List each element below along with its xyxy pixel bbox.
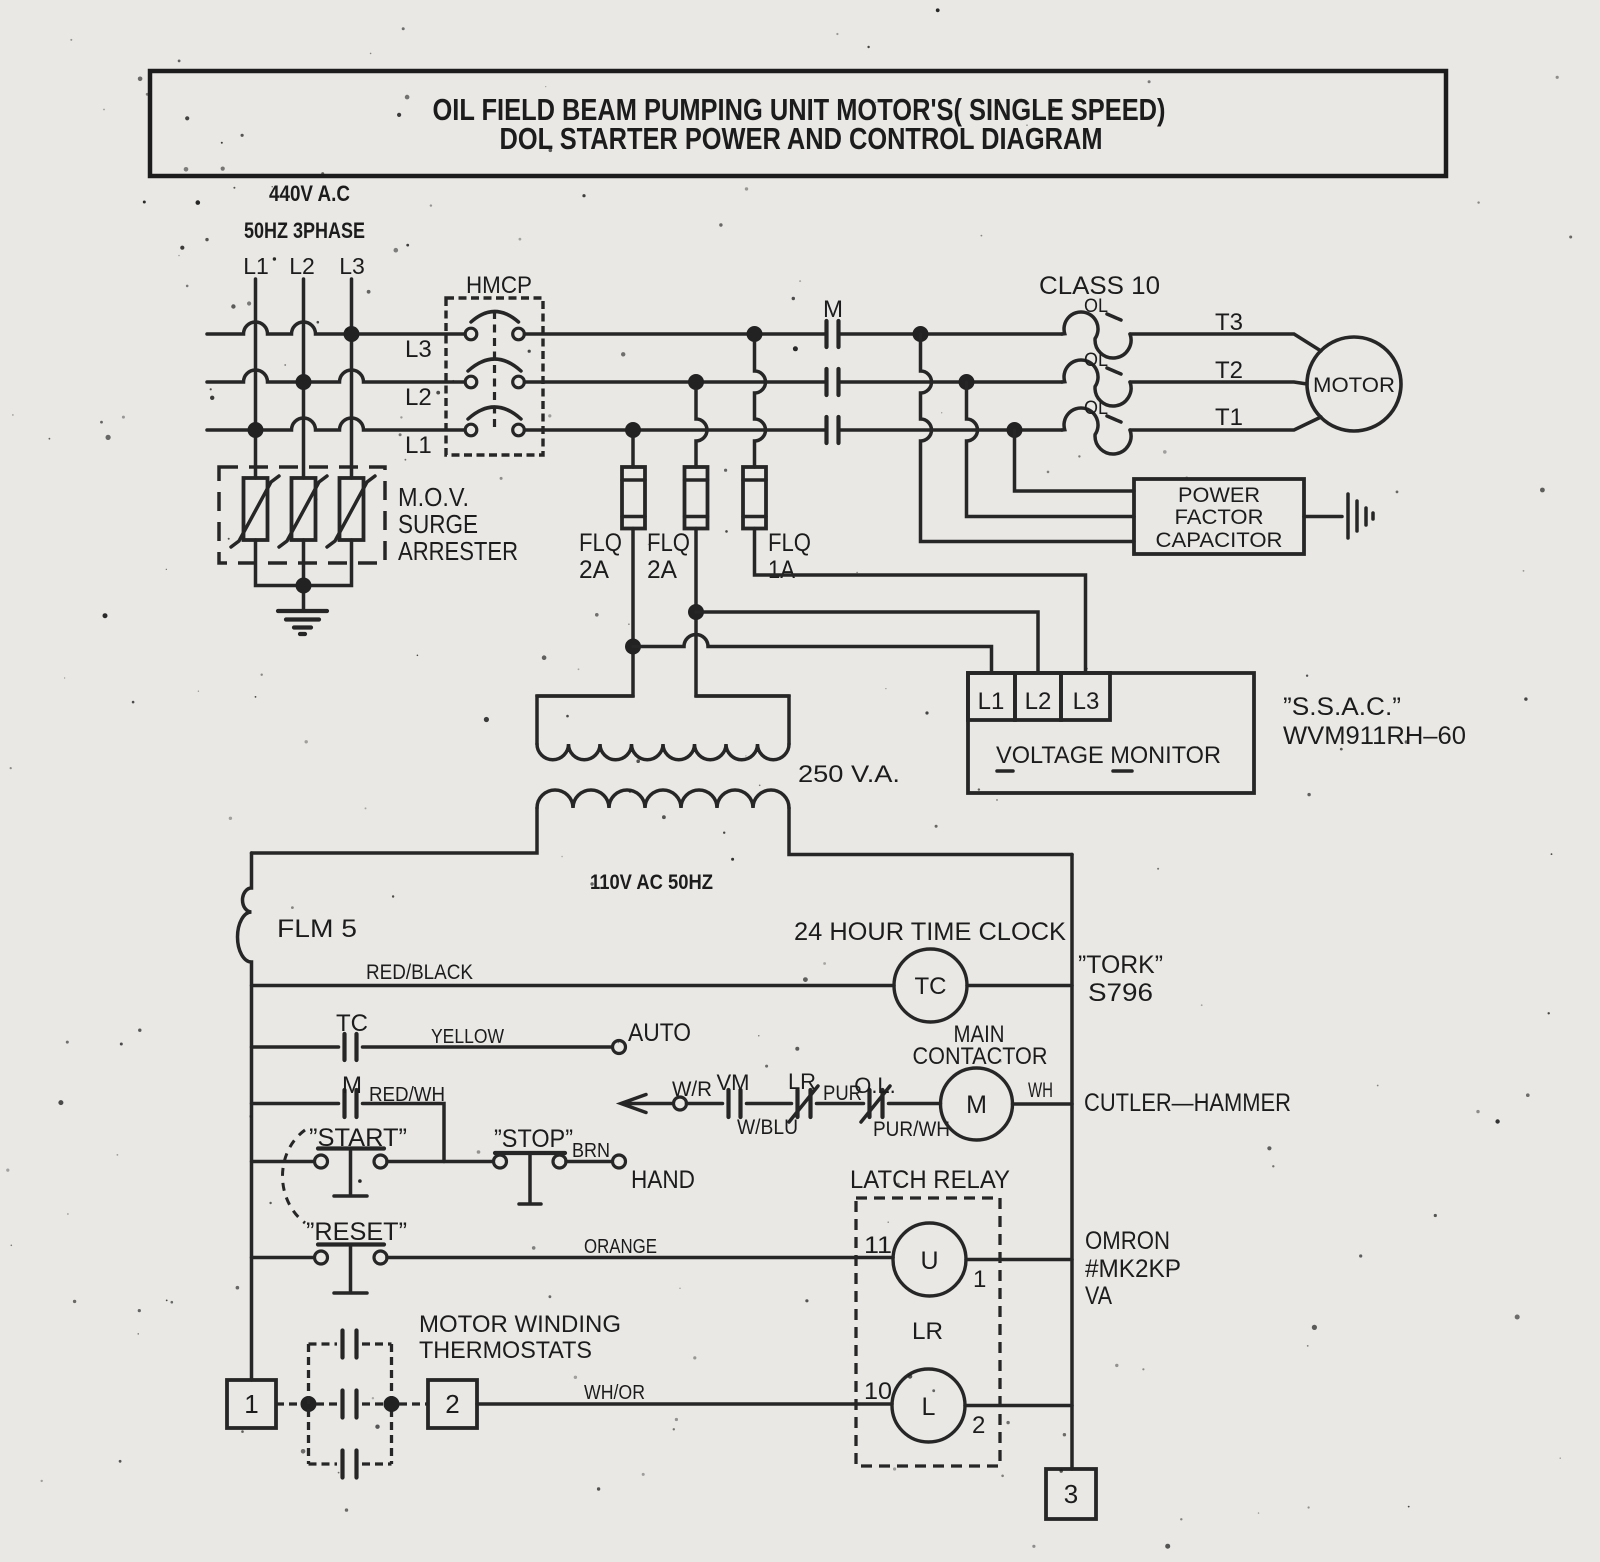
wire tap to VM L2 [696,612,1038,673]
svg-text:YELLOW: YELLOW [431,1026,504,1048]
svg-text:VA: VA [1085,1282,1112,1310]
title border box [150,71,1446,176]
wire TC contact to AUTO terminal [363,1045,613,1049]
wire PF tap from L2 (hops L1 bus) [967,382,1135,517]
wire MOV bottoms to common bus [256,540,352,609]
svg-text:POWER: POWER [1178,484,1260,507]
svg-text:CAPACITOR: CAPACITOR [1156,529,1283,552]
svg-text:11: 11 [864,1232,892,1259]
transformer T1 secondary winding [537,790,789,808]
wire bus L1 bottom left (hops over L2,L3 drops) [207,418,465,430]
VM terminal box L1 [968,673,1015,720]
svg-text:HAND: HAND [631,1166,695,1194]
terminal box 1 [227,1380,276,1428]
svg-text:L1: L1 [243,253,269,279]
breaker pole L1 (circles and arc) [465,424,477,436]
overload heater OL on T1 [1062,408,1131,454]
svg-text:THERMOSTATS: THERMOSTATS [419,1337,592,1364]
svg-text:10: 10 [864,1378,892,1405]
rung 1: wire to TC clock [252,984,895,988]
svg-text:L1: L1 [978,688,1005,715]
svg-text:M: M [823,296,843,323]
node dot thermostat left [301,1396,317,1412]
wire box2 to L coil [477,1402,892,1406]
node dot L1 / PF cap tap [1007,422,1023,438]
svg-text:W/R: W/R [672,1078,712,1101]
svg-text:CUTLER—HAMMER: CUTLER—HAMMER [1084,1089,1291,1117]
terminal AUTO [613,1041,626,1054]
svg-text:L2: L2 [405,384,432,411]
breaker pole L3 (circles and arc) [465,328,477,340]
wire OL to M coil [889,1102,941,1106]
svg-text:OL: OL [1084,398,1108,419]
contact O.L. (NC with slash) [870,1090,883,1117]
terminal W/R pivot [674,1097,687,1110]
wire L2 from M to OL [840,380,1062,384]
svg-text:LATCH RELAY: LATCH RELAY [850,1166,1010,1194]
wire M contact down to start rung [363,1104,445,1162]
wire L1 phase drop [254,279,258,478]
latch relay dashed box [856,1198,1000,1466]
wire left rail with FLM fuse bumps [238,853,252,1380]
svg-text:”STOP”: ”STOP” [494,1125,573,1153]
motor M1 circle [1307,337,1401,431]
node dot L2/FLQ2A-2 tap [688,374,704,390]
svg-text:50HZ 3PHASE: 50HZ 3PHASE [244,218,365,243]
fuse FLQ2A-1 body [622,467,645,529]
svg-text:1: 1 [973,1266,986,1293]
wire START to STOP [387,1160,494,1164]
terminal box 2 [428,1380,477,1428]
svg-text:L3: L3 [1073,688,1100,715]
svg-text:PUR/WH: PUR/WH [873,1118,950,1141]
svg-text:S796: S796 [1088,979,1153,1007]
terminal HAND [613,1155,626,1168]
svg-text:1: 1 [244,1389,258,1419]
wire bus L3 after HMCP to OL [525,332,826,336]
wire FLQ2A-1 to transformer primary left [537,529,633,745]
wire bus L3 top left (hops over L1,L2 drops) [207,322,465,334]
svg-text:2A: 2A [579,556,609,584]
svg-text:L: L [922,1393,936,1421]
svg-text:250 V.A.: 250 V.A. [798,761,900,788]
svg-text:MOTOR: MOTOR [1313,374,1395,397]
svg-text:RED/BLACK: RED/BLACK [366,961,473,984]
svg-text:440V A.C: 440V A.C [269,181,350,206]
VM terminal box L3 [1061,673,1110,720]
wire secondary right lead to right rail [789,808,1072,855]
coil U (unlatch) [893,1223,966,1296]
svg-text:”START”: ”START” [309,1124,407,1152]
svg-text:”RESET”: ”RESET” [306,1218,407,1246]
wire FLQ1A to voltage monitor L3 [755,529,1086,674]
coil M main contactor [941,1068,1013,1140]
node junction dot L1 bus / L1 drop [248,422,264,438]
svg-text:CONTACTOR: CONTACTOR [913,1043,1048,1070]
svg-text:WVM911RH–60: WVM911RH–60 [1283,722,1466,750]
wire PF tap from L1 [1015,430,1135,491]
contact TC (NO) [345,1034,357,1060]
svg-text:”TORK”: ”TORK” [1078,951,1163,979]
svg-text:TC: TC [915,973,947,1000]
dashed wire box1 to thermostats [276,1402,300,1405]
svg-text:U: U [920,1247,938,1275]
wire TC to right rail [967,984,1072,988]
svg-text:TC: TC [336,1010,368,1037]
wire LR to OL contact [817,1102,864,1106]
node dot L3 / PF cap tap [913,326,929,342]
rung 4: wire rail to START [252,1160,315,1164]
contactor M contact L3 [827,321,839,347]
thermostat contact middle [343,1391,357,1418]
pushbutton RESET (NO) [315,1251,328,1264]
power section [207,253,1466,894]
VM terminal box L2 [1015,673,1061,720]
node junction dot L3 bus / L3 drop [344,326,360,342]
node MOV common dot [296,578,312,594]
control section [227,853,1291,1519]
node dot tap to VM L2 [688,604,704,620]
wire L1 from M to OL [840,428,1062,432]
wire tap to VM L1 (hops FLQ2A-2 drop) [633,635,992,674]
svg-text:24 HOUR TIME CLOCK: 24 HOUR TIME CLOCK [794,918,1066,946]
overload heater OL on T2 [1062,360,1131,406]
svg-text:FACTOR: FACTOR [1175,506,1264,529]
thermostat contact top [343,1331,357,1358]
fuse FLQ2A-2 drop from L2 bus (hops L1 bus) [696,390,707,467]
fuse FLQ1A body [743,467,766,529]
node junction dot L2 bus / L2 drop [296,374,312,390]
thermostat parallel dashed frame [309,1344,392,1464]
node dot thermostat right [384,1396,400,1412]
selector arrow [621,1095,674,1113]
wire bus L1 after HMCP to OL [525,428,826,432]
svg-text:”S.S.A.C.”: ”S.S.A.C.” [1283,693,1401,721]
svg-text:BRN: BRN [572,1140,610,1162]
fuse FLQ1A drop from L3 bus (hops L2,L1 buses) [755,342,766,467]
terminal box 3 [1046,1469,1096,1519]
svg-text:FLQ: FLQ [579,529,622,557]
svg-text:M.O.V.: M.O.V. [398,482,469,512]
wire PF tap from L3 (hops L2,L1 buses) [921,334,1135,542]
node dot L1/FLQ2A-1 tap [625,422,641,438]
breaker HMCP dashed enclosure [446,298,543,455]
contact M (seal-in NO) [345,1090,357,1117]
pushbutton START (NO) [315,1155,328,1168]
contact VM (NO) [729,1090,741,1117]
contactor M contact L2 [827,369,839,395]
wire bus L2 middle left (hops over L1,L3 drops) [207,370,465,382]
contactor M contact L1 [827,417,839,443]
wire VM to LR contact [747,1102,792,1106]
wire bus L2 after HMCP to OL [525,380,826,384]
svg-text:T1: T1 [1215,404,1243,431]
svg-text:OMRON: OMRON [1085,1227,1170,1255]
wire PF cap to earth [1304,515,1342,519]
wire STOP to HAND terminal [566,1160,612,1164]
overload heater OL on T3 [1062,312,1131,358]
wire secondary left lead to left rail [252,808,538,853]
wire M coil to right rail [1013,1102,1073,1106]
wire to VM contact [687,1102,723,1106]
ground symbol (earth) [278,609,327,613]
svg-text:O.L.: O.L. [854,1073,896,1098]
varistor RV1 [244,478,268,540]
svg-text:FLM 5: FLM 5 [277,915,357,943]
svg-text:OL: OL [1084,350,1108,371]
svg-text:SURGE: SURGE [398,509,478,539]
rung 3: wire from rail to M contact [252,1102,339,1106]
wire T1 to motor [1130,417,1321,430]
fuse FLQ2A-2 body [685,467,708,529]
wire T2 to motor [1130,382,1307,384]
dashed mechanical link START-RESET [283,1130,306,1223]
thermostat contact bottom [343,1451,357,1478]
svg-text:L2: L2 [1025,688,1052,715]
rung 5: wire rail to RESET [252,1256,315,1260]
contact LR (NC with slash) [798,1090,811,1117]
svg-text:WH/OR: WH/OR [584,1382,645,1404]
svg-text:L1: L1 [405,432,432,459]
MOV surge arrester dashed box [219,467,385,563]
power factor capacitor box [1134,479,1304,554]
breaker HMCP mechanical tie dashed line [493,311,496,430]
node dot tap to VM L1 [625,639,641,655]
voltage monitor box [968,673,1254,793]
svg-text:VOLTAGE MONITOR: VOLTAGE MONITOR [996,742,1221,769]
svg-text:110V AC 50HZ: 110V AC 50HZ [590,871,713,894]
svg-text:LR: LR [912,1318,943,1345]
svg-text:2A: 2A [647,556,677,584]
pushbutton STOP (NC) [494,1155,507,1168]
wire right rail [1070,855,1074,1470]
svg-text:DOL STARTER POWER AND CONTROL: DOL STARTER POWER AND CONTROL DIAGRAM [500,121,1103,156]
breaker pole L2 (circles and arc) [465,376,477,388]
svg-text:T2: T2 [1215,357,1243,384]
svg-text:2: 2 [972,1412,985,1439]
svg-text:WH: WH [1028,1079,1053,1102]
svg-text:ORANGE: ORANGE [584,1236,657,1258]
wire L3 from M to OL [840,332,1062,336]
varistor RV2 [292,478,316,540]
svg-text:3: 3 [1064,1479,1078,1509]
svg-text:M: M [342,1072,362,1099]
svg-text:ARRESTER: ARRESTER [398,536,518,566]
svg-text:L3: L3 [405,336,432,363]
varistor RV3 [340,478,364,540]
svg-text:L2: L2 [289,253,315,279]
svg-text:T3: T3 [1215,309,1243,336]
fuse FLQ2A-1 drop from L1 bus [631,438,635,467]
svg-text:2: 2 [445,1389,459,1419]
transformer T1 primary winding [537,694,789,698]
wire T3 to motor [1130,334,1321,351]
node dot L2 / PF cap tap [959,374,975,390]
rung 2: wire from rail to TC contact [252,1045,339,1049]
svg-text:FLQ: FLQ [647,529,690,557]
title block [150,71,1446,243]
svg-text:OL: OL [1084,296,1108,317]
svg-text:LR: LR [788,1069,816,1094]
svg-text:FLQ: FLQ [768,529,811,557]
wire L coil to right rail [965,1404,1072,1408]
svg-text:1A: 1A [768,556,795,584]
wire L3 phase drop [350,279,354,478]
ground symbol (rotated earth) [1346,494,1350,538]
time clock TC coil [894,949,967,1022]
svg-text:M: M [966,1091,987,1119]
svg-text:AUTO: AUTO [628,1019,691,1047]
svg-text:#MK2KP: #MK2KP [1085,1255,1181,1283]
dashed wire thermostats to box 2 [399,1402,428,1405]
svg-text:HMCP: HMCP [466,272,532,299]
svg-text:L3: L3 [339,253,365,279]
wire FLQ2A-2 to transformer primary right [696,529,789,745]
svg-text:MOTOR WINDING: MOTOR WINDING [419,1311,621,1338]
coil L (latch) [892,1369,965,1442]
wire RESET to U coil [387,1256,893,1260]
node dot L3/FLQ1A tap [747,326,763,342]
svg-text:VM: VM [717,1070,750,1095]
wire L2 phase drop [302,279,306,478]
wire U coil to right rail [966,1258,1072,1262]
